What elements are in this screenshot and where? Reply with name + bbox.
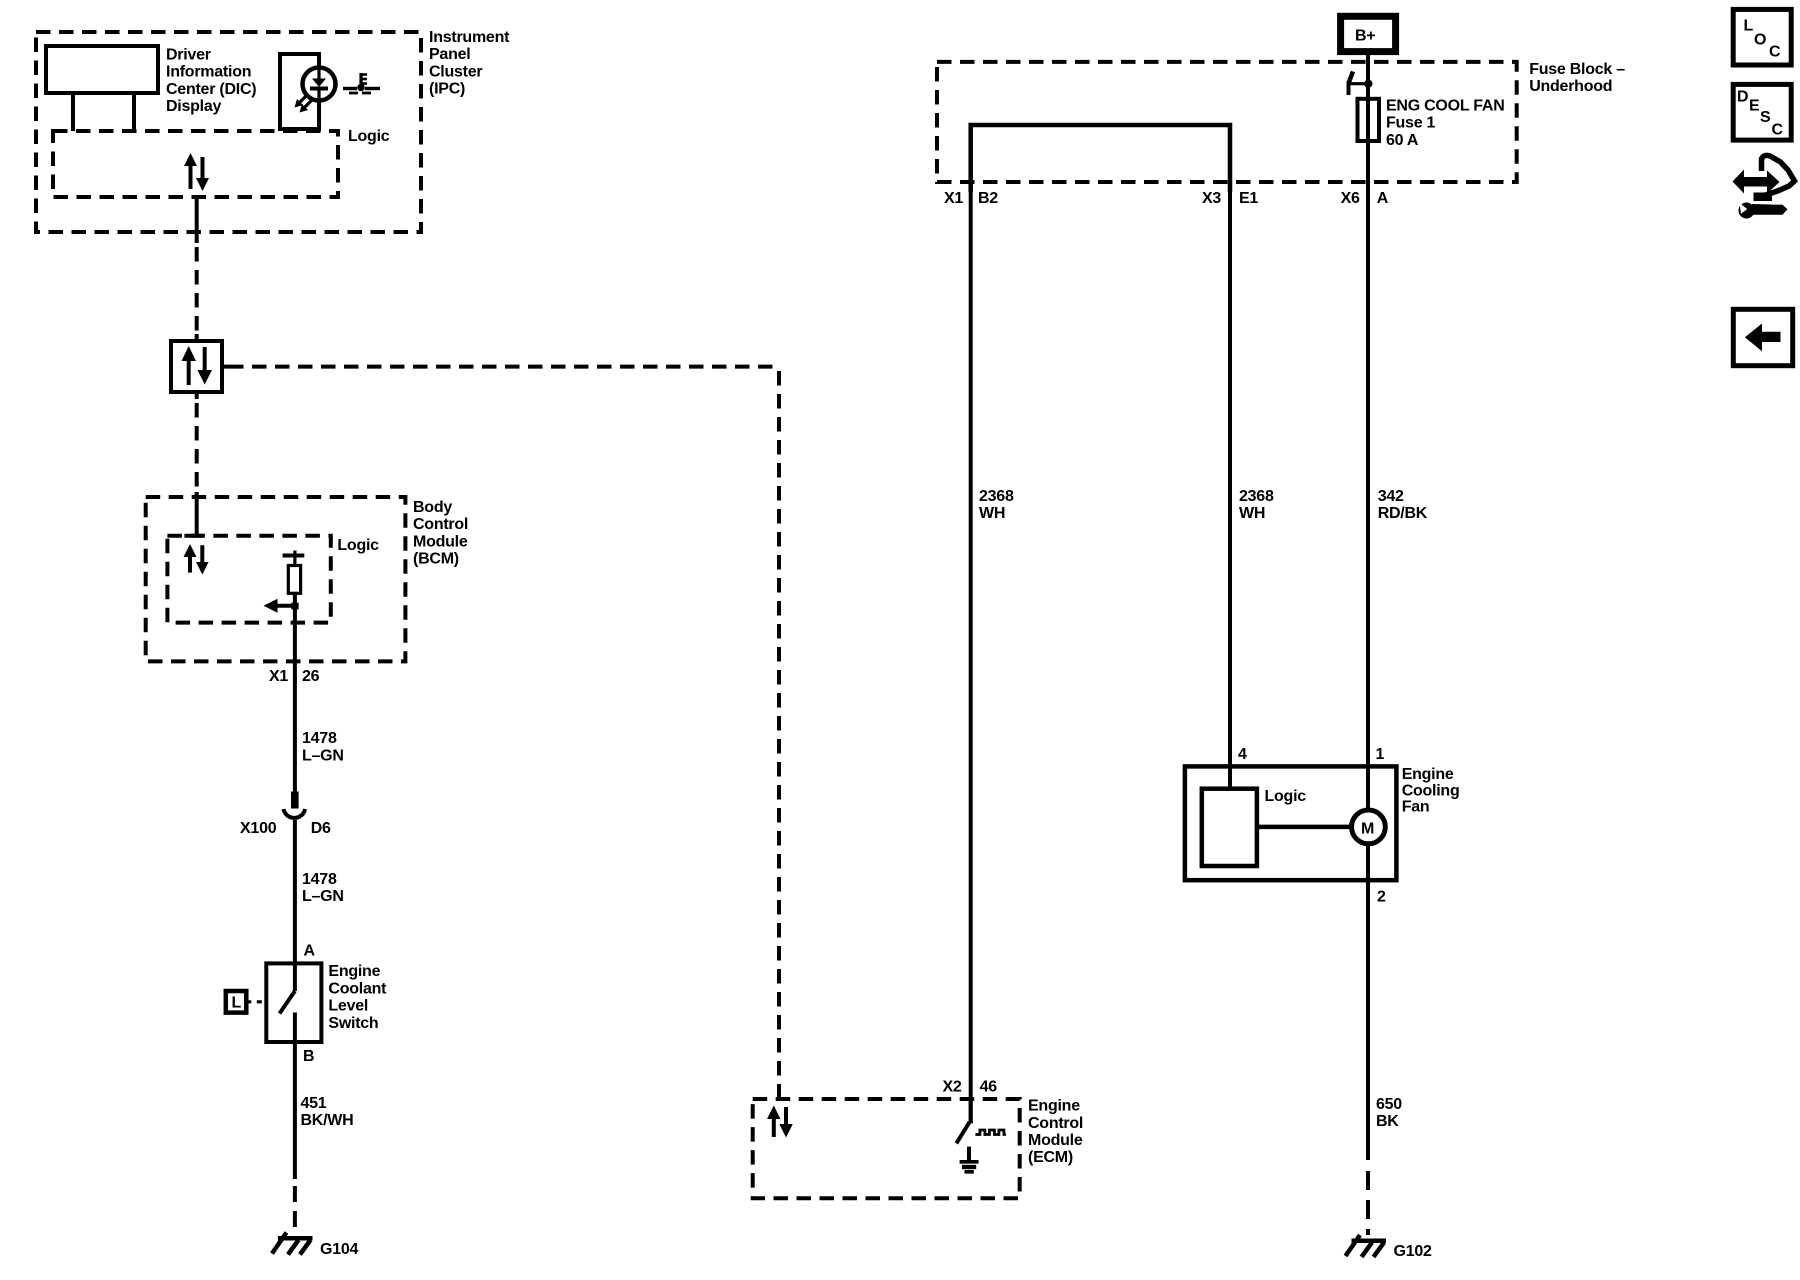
svg-text:Coolant: Coolant (328, 980, 387, 997)
wire B+ to fuse (1366, 52, 1370, 99)
svg-text:BK/WH: BK/WH (301, 1112, 354, 1129)
dashed wire IPC to bus symbol (195, 247, 199, 334)
label 650 BK (1376, 1096, 1402, 1130)
motor ground wire 650 BK (1366, 844, 1370, 1160)
label 2368 WH right (1239, 488, 1274, 522)
svg-text:Cluster: Cluster (429, 63, 482, 80)
switch contacts (280, 963, 295, 1042)
svg-text:B2: B2 (978, 190, 998, 207)
svg-text:RD/BK: RD/BK (1378, 505, 1428, 522)
in-line connector X100 D6 (284, 792, 306, 964)
wire pin 1 to motor (1366, 766, 1370, 811)
label 1478 L-GN upper (302, 730, 344, 765)
wire into BCM logic (184, 492, 202, 536)
wire 2368 WH to ECM (969, 192, 973, 1123)
wire 1478 L-GN upper (293, 661, 297, 793)
svg-text:Engine: Engine (1028, 1098, 1080, 1115)
DESC icon box (1733, 84, 1791, 140)
dashed wire to G102 (1366, 1171, 1370, 1235)
svg-text:L–GN: L–GN (302, 748, 344, 765)
label 1478 L-GN lower (302, 871, 344, 905)
connector labels X100 D6 (240, 820, 331, 837)
fan motor M (1352, 810, 1386, 844)
svg-text:(ECM): (ECM) (1028, 1149, 1073, 1166)
svg-text:1: 1 (1376, 746, 1385, 763)
Body Control Module (BCM) dashed box (146, 497, 406, 661)
fan logic box (1202, 789, 1257, 866)
fan logic to motor wire (1257, 825, 1352, 830)
serial data bus node box (171, 334, 229, 399)
IPC logic serial data arrows (184, 153, 209, 191)
wire from IPC logic to IPC edge (195, 197, 199, 243)
svg-text:WH: WH (979, 505, 1005, 522)
Engine Coolant Level Switch box (266, 963, 321, 1042)
ECM connector labels X2 46 (943, 1079, 998, 1096)
svg-text:Cooling: Cooling (1402, 782, 1460, 799)
svg-text:451: 451 (301, 1095, 327, 1112)
svg-text:X1: X1 (269, 668, 288, 685)
dashed serial data bus wire to ECM (vertical) (777, 371, 781, 1099)
fuse block internal bus wire (971, 125, 1230, 192)
svg-text:WH: WH (1239, 505, 1265, 522)
jump wrench icon (1733, 155, 1795, 218)
svg-text:B+: B+ (1355, 28, 1375, 45)
svg-text:X2: X2 (943, 1079, 962, 1096)
fuse block label (1529, 61, 1625, 95)
svg-text:Fuse 1: Fuse 1 (1386, 115, 1436, 132)
svg-text:Driver: Driver (166, 47, 211, 64)
DIC display box (46, 46, 158, 93)
DIC display label (166, 47, 256, 116)
svg-text:Fan: Fan (1402, 799, 1430, 816)
svg-text:L: L (1744, 18, 1754, 35)
svg-text:ENG COOL FAN: ENG COOL FAN (1386, 98, 1505, 115)
ground G102 (1346, 1235, 1387, 1257)
svg-text:A: A (1377, 190, 1389, 207)
svg-text:Module: Module (1028, 1132, 1083, 1149)
svg-text:(IPC): (IPC) (429, 81, 465, 98)
telltale indicator frame (280, 54, 319, 129)
switch label (328, 963, 387, 1032)
BCM internal pull-up resistor (283, 551, 305, 662)
ground G104 (272, 1233, 313, 1255)
level sensor L box (226, 991, 247, 1013)
label 342 RD/BK (1378, 488, 1428, 522)
label 2368 WH left (979, 488, 1014, 522)
fuse label (1386, 98, 1505, 149)
svg-text:Display: Display (166, 98, 222, 115)
svg-text:Information: Information (166, 64, 251, 81)
svg-text:E1: E1 (1239, 190, 1258, 207)
svg-text:Module: Module (413, 533, 468, 550)
BCM sense arrow (264, 599, 299, 613)
wire 2368 WH to fan (1228, 192, 1232, 789)
svg-text:Instrument: Instrument (429, 29, 510, 46)
ECM label (1028, 1098, 1083, 1167)
coolant level telltale symbol (343, 73, 380, 93)
svg-text:Engine: Engine (1402, 766, 1454, 783)
svg-text:L: L (232, 995, 242, 1012)
wire 451 BK/WH (293, 1042, 297, 1179)
ENG COOL FAN Fuse 1 60 A (1358, 99, 1380, 141)
svg-text:G102: G102 (1394, 1243, 1432, 1260)
svg-text:E: E (1749, 98, 1760, 115)
svg-text:Center (DIC): Center (DIC) (166, 81, 256, 98)
svg-text:O: O (1754, 32, 1766, 49)
svg-text:L–GN: L–GN (302, 888, 344, 905)
svg-text:G104: G104 (320, 1241, 358, 1258)
svg-text:2368: 2368 (1239, 488, 1274, 505)
BCM logic dashed box (167, 536, 330, 623)
svg-text:C: C (1772, 122, 1784, 139)
svg-text:Body: Body (413, 499, 452, 516)
svg-text:Engine: Engine (328, 963, 380, 980)
svg-text:Logic: Logic (337, 537, 379, 554)
bus bar tap symbol (1349, 72, 1373, 96)
IPC label (429, 29, 510, 98)
dashed link L box to switch (246, 1000, 266, 1003)
svg-text:D: D (1737, 89, 1748, 106)
BCM label (413, 499, 468, 568)
Instrument Panel Cluster (IPC) dashed box (36, 32, 421, 232)
svg-text:342: 342 (1378, 488, 1404, 505)
svg-text:D6: D6 (311, 820, 331, 837)
ECM serial data arrows (767, 1106, 793, 1138)
svg-text:1478: 1478 (302, 871, 337, 888)
svg-text:Fuse Block –: Fuse Block – (1529, 61, 1625, 78)
IPC logic dashed box (53, 131, 338, 197)
svg-text:Underhood: Underhood (1529, 78, 1612, 95)
svg-text:BK: BK (1376, 1113, 1399, 1130)
LOC icon box (1733, 9, 1791, 65)
fuse block connector labels (944, 190, 1389, 207)
svg-text:46: 46 (980, 1079, 998, 1096)
svg-text:Control: Control (1028, 1115, 1083, 1132)
svg-text:1478: 1478 (302, 730, 337, 747)
svg-text:2: 2 (1377, 889, 1386, 906)
svg-text:A: A (304, 942, 316, 959)
dashed serial data wire to BCM (195, 403, 199, 494)
Engine Control Module (ECM) dashed box (753, 1099, 1020, 1198)
svg-text:S: S (1760, 109, 1771, 126)
svg-text:Logic: Logic (1265, 788, 1307, 805)
svg-text:Control: Control (413, 516, 468, 533)
svg-text:650: 650 (1376, 1096, 1402, 1113)
fan label (1402, 766, 1460, 816)
svg-text:Panel: Panel (429, 46, 470, 63)
battery positive B+ terminal (1341, 16, 1396, 51)
BCM connector labels X1 26 (269, 668, 320, 685)
label 451 BK/WH (301, 1095, 354, 1129)
svg-text:(BCM): (BCM) (413, 551, 459, 568)
back arrow icon box (1733, 309, 1792, 365)
LED indicator lamp (303, 67, 336, 101)
LED emission arrows (295, 95, 313, 113)
svg-text:Level: Level (328, 998, 368, 1015)
svg-text:60 A: 60 A (1386, 132, 1419, 149)
svg-text:X100: X100 (240, 820, 277, 837)
Engine Cooling Fan box (1185, 766, 1397, 880)
svg-text:Switch: Switch (328, 1015, 378, 1032)
ECM internal ground (960, 1147, 979, 1172)
Fuse Block Underhood dashed box (937, 62, 1517, 182)
svg-text:4: 4 (1238, 746, 1247, 763)
svg-text:2368: 2368 (979, 488, 1014, 505)
svg-text:X3: X3 (1202, 190, 1221, 207)
svg-text:B: B (303, 1048, 314, 1065)
svg-text:Logic: Logic (348, 128, 390, 145)
fan pin labels (1238, 746, 1386, 906)
dashed wire to G104 (293, 1186, 297, 1232)
DIC display leg wires (73, 93, 134, 131)
fuse output wire 342 RD/BK (1366, 141, 1370, 766)
svg-text:M: M (1361, 821, 1374, 838)
svg-text:X6: X6 (1341, 190, 1360, 207)
svg-text:C: C (1769, 44, 1781, 61)
svg-text:26: 26 (302, 668, 320, 685)
ECM driver switch (956, 1099, 970, 1143)
BCM logic serial data arrows (184, 544, 209, 575)
PWM signal symbol (975, 1130, 1006, 1135)
dashed serial data bus wire to ECM (horizontal) (229, 365, 779, 369)
bus node arrows (182, 346, 213, 385)
svg-text:X1: X1 (944, 190, 963, 207)
